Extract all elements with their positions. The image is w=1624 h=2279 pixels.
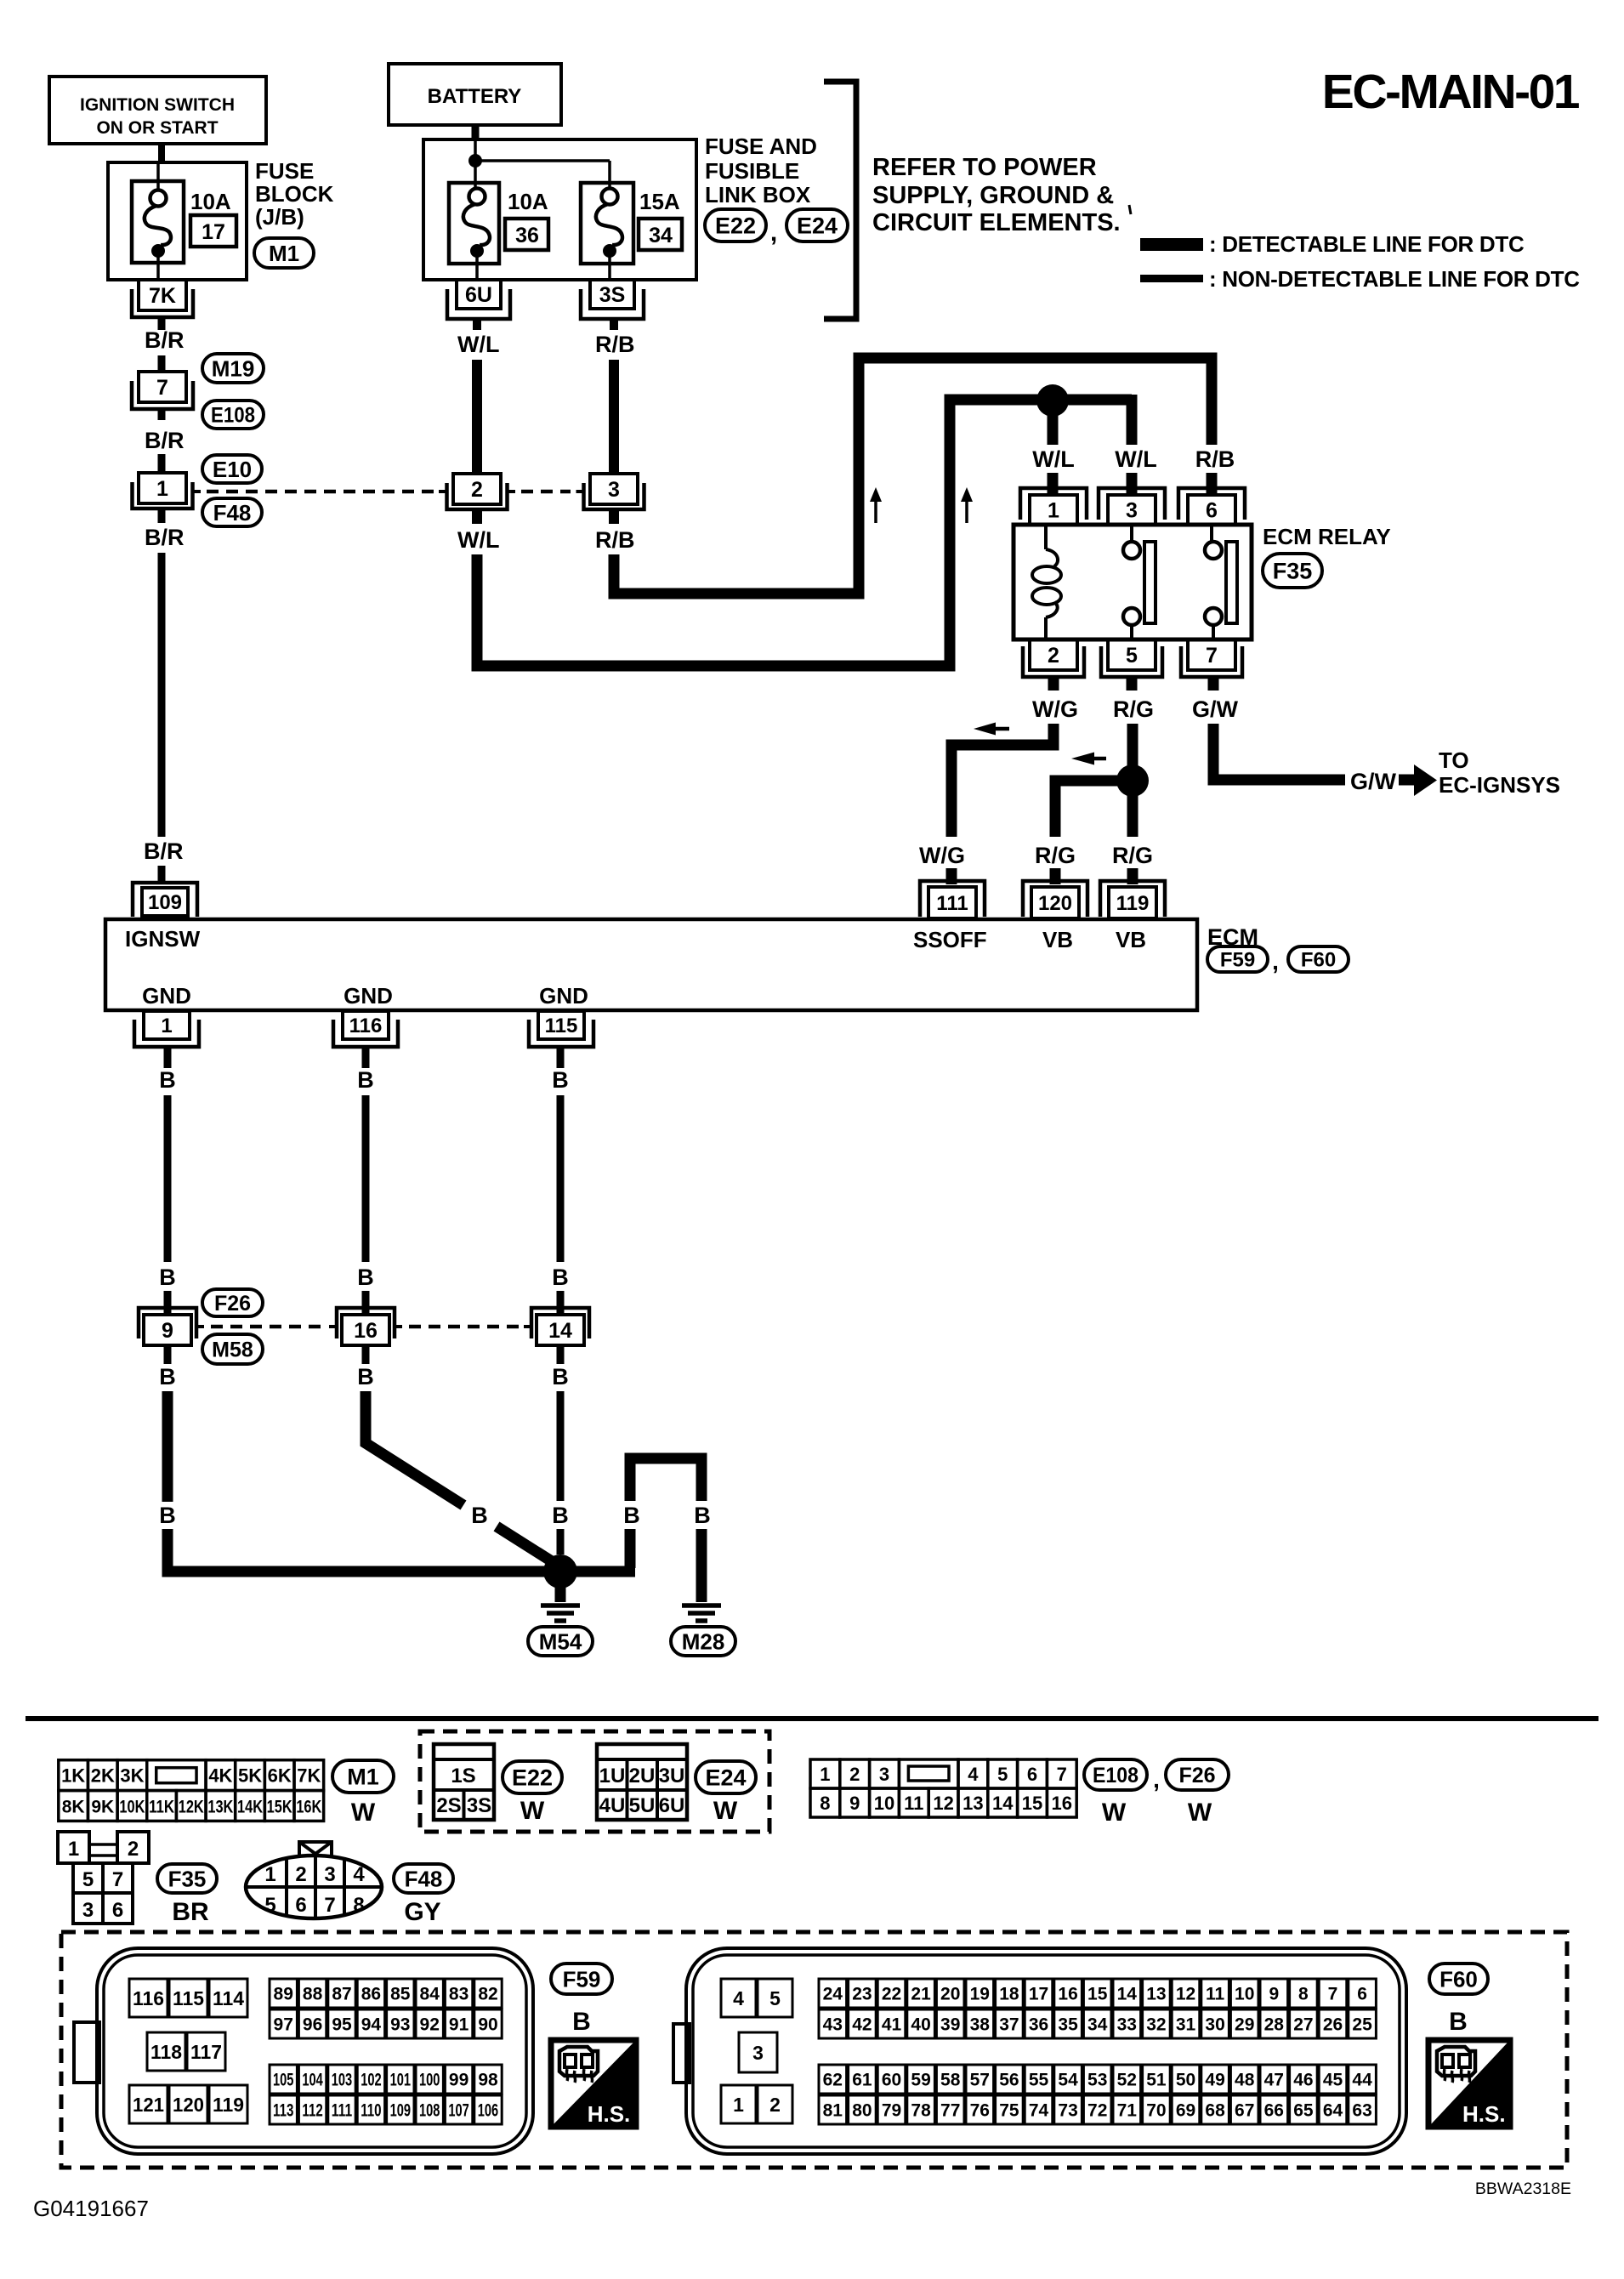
svg-text:8: 8: [1298, 1985, 1309, 2004]
svg-text:F60: F60: [1439, 1966, 1478, 1992]
svg-text:30: 30: [1205, 2015, 1224, 2035]
wire R/G from relay pin 5: [1127, 724, 1139, 837]
svg-text:96: 96: [303, 2015, 322, 2035]
relay pin 3 connector: [1099, 488, 1165, 525]
svg-text:B: B: [552, 1265, 569, 1290]
color W for F26: [1188, 1799, 1212, 1827]
wire G/W to EC-IGNSYS: [1213, 724, 1345, 780]
label G/W: [1350, 769, 1397, 794]
connector 3: [576, 474, 644, 509]
svg-text:7: 7: [112, 1868, 123, 1891]
svg-text:106: 106: [478, 2101, 498, 2121]
svg-text:B/R: B/R: [144, 838, 184, 864]
figure id BBWA2318E: [1475, 2180, 1571, 2198]
svg-text:6: 6: [1206, 499, 1218, 523]
dashed box around E22 E24: [420, 1731, 769, 1832]
connector E108 oval: [202, 401, 264, 429]
svg-text:8: 8: [353, 1894, 364, 1917]
svg-text:111: 111: [936, 892, 968, 915]
svg-text:B: B: [552, 1364, 569, 1390]
svg-text:10A: 10A: [190, 189, 231, 214]
F60 pin group 4-5: [721, 1979, 792, 2017]
wire B/R to connector 109: [158, 866, 166, 884]
connector 7 (M19/E108): [132, 372, 193, 409]
svg-text:16: 16: [1052, 1793, 1072, 1814]
relay pin 1 connector: [1020, 488, 1087, 525]
svg-text:W/L: W/L: [457, 332, 499, 357]
svg-text:8: 8: [820, 1793, 830, 1814]
svg-text:76: 76: [970, 2101, 990, 2121]
svg-text:4: 4: [733, 1987, 744, 2009]
svg-text:M1: M1: [347, 1765, 379, 1790]
svg-text:49: 49: [1205, 2071, 1224, 2090]
svg-text:M28: M28: [682, 1628, 725, 1654]
svg-text:7: 7: [156, 376, 168, 400]
wire B stub g2: [362, 1047, 370, 1068]
svg-text:114: 114: [213, 1987, 244, 2009]
svg-text:69: 69: [1176, 2101, 1195, 2121]
connector F26 oval: [202, 1289, 263, 1316]
wire B long g2: [362, 1095, 370, 1262]
comma: [1153, 1766, 1160, 1793]
svg-text:E108: E108: [211, 404, 255, 428]
label W/G: [1032, 696, 1078, 722]
svg-text:2: 2: [769, 2094, 781, 2116]
wire stubs below relay: [1053, 677, 1213, 691]
wire B stub below connector: [557, 1345, 565, 1364]
wire B stub above connector g3: [557, 1291, 565, 1315]
svg-text:63: 63: [1352, 2101, 1371, 2121]
svg-text:R/B: R/B: [595, 332, 635, 357]
F59 pin group 116-114: [129, 1979, 247, 2017]
wire R/B stub below connector 3: [609, 510, 619, 524]
svg-text:E22: E22: [512, 1765, 553, 1791]
svg-text:VB: VB: [1042, 927, 1073, 952]
ECM box: [105, 919, 1197, 1010]
connector view M1 grid: [59, 1760, 324, 1821]
svg-text:1K: 1K: [61, 1765, 85, 1787]
connector 120: [1023, 881, 1087, 918]
svg-text:58: 58: [940, 2071, 961, 2090]
svg-text:7: 7: [324, 1894, 335, 1917]
svg-text:80: 80: [852, 2101, 872, 2121]
connector F48 oval label: [394, 1864, 453, 1893]
wire W/L detectable run to relay pin 1: [477, 400, 1132, 666]
svg-text:B: B: [357, 1364, 374, 1390]
svg-text:G/W: G/W: [1350, 769, 1397, 794]
svg-text:B: B: [357, 1067, 374, 1093]
svg-text:87: 87: [332, 1985, 351, 2004]
color B for F60: [1449, 2008, 1468, 2036]
svg-text:F48: F48: [213, 500, 252, 526]
svg-text:51: 51: [1146, 2071, 1167, 2090]
ignition switch box: [49, 77, 266, 144]
svg-text:W: W: [1188, 1799, 1212, 1827]
svg-text:M54: M54: [539, 1628, 582, 1654]
svg-text:8K: 8K: [62, 1797, 85, 1816]
label B: [552, 1265, 569, 1290]
svg-text:43: 43: [823, 2015, 843, 2035]
svg-text:120: 120: [173, 2094, 204, 2116]
svg-text:B: B: [159, 1067, 176, 1093]
svg-text:1: 1: [68, 1838, 79, 1861]
legend non-detectable line: [1140, 266, 1580, 292]
svg-text:1: 1: [733, 2094, 744, 2116]
svg-text:81: 81: [823, 2101, 843, 2121]
connector 109: [133, 883, 197, 917]
F59 pin group 105-98 / 113-106: [270, 2065, 502, 2124]
svg-text:R/B: R/B: [1195, 446, 1235, 472]
svg-text:94: 94: [361, 2015, 382, 2035]
svg-text:45: 45: [1323, 2071, 1343, 2090]
wire B left column to ground bus: [168, 1391, 635, 1571]
title EC-MAIN-01: [1322, 65, 1580, 119]
svg-text:R/G: R/G: [1035, 843, 1076, 868]
connector F35 oval: [1263, 554, 1322, 588]
comma: [1272, 948, 1279, 975]
svg-text:2S: 2S: [436, 1794, 461, 1817]
connector 119: [1100, 881, 1165, 918]
svg-text:W/L: W/L: [1115, 446, 1156, 472]
svg-text:FUSIBLE: FUSIBLE: [705, 158, 799, 184]
svg-text:75: 75: [999, 2101, 1019, 2121]
svg-text:TO: TO: [1439, 747, 1469, 773]
svg-text:11: 11: [1206, 1985, 1225, 2004]
wire R/B stub: [610, 319, 618, 330]
relay pin 6 connector: [1178, 488, 1245, 525]
label B on M28 branch left: [623, 1503, 640, 1528]
svg-text:B: B: [159, 1364, 176, 1390]
svg-text:W/L: W/L: [1032, 446, 1074, 472]
label B below connector: [159, 1364, 176, 1390]
svg-text:99: 99: [449, 2071, 468, 2090]
svg-text:B: B: [694, 1503, 711, 1528]
connector F60 oval label: [1429, 1964, 1488, 1994]
svg-text:12: 12: [933, 1793, 953, 1814]
svg-text:5K: 5K: [238, 1765, 262, 1787]
svg-text:6: 6: [295, 1894, 306, 1917]
svg-text:102: 102: [361, 2071, 381, 2090]
svg-text:R/G: R/G: [1112, 843, 1153, 868]
connector M19 oval: [202, 354, 264, 383]
relay contact pins 3-5: [1123, 525, 1156, 639]
svg-text:B: B: [159, 1503, 176, 1528]
svg-text:17: 17: [202, 220, 225, 244]
svg-text:33: 33: [1117, 2015, 1137, 2035]
wire ignition switch to fuse block: [158, 144, 165, 164]
svg-text:M58: M58: [212, 1338, 253, 1362]
connector 111: [920, 881, 985, 918]
ground M28 oval: [671, 1627, 735, 1656]
svg-text:1: 1: [264, 1863, 275, 1886]
relay pin 7 connector: [1181, 639, 1242, 677]
svg-text:: DETECTABLE LINE FOR DTC: : DETECTABLE LINE FOR DTC: [1209, 231, 1525, 257]
svg-text:66: 66: [1264, 2101, 1284, 2121]
wire bus junction to M28 branch: [630, 1458, 701, 1568]
dashed box around F59 F60: [61, 1932, 1567, 2168]
label W/G above connector 111: [919, 843, 965, 868]
label W/L: [457, 527, 499, 553]
legend detectable line: [1140, 231, 1525, 257]
svg-text:70: 70: [1146, 2101, 1166, 2121]
svg-text:13: 13: [1146, 1985, 1166, 2004]
wire down to ground M54: [555, 1583, 566, 1602]
wire W/L junction to relay pin 1: [1048, 408, 1059, 445]
svg-text:E24: E24: [797, 213, 838, 239]
svg-text:F26: F26: [1178, 1764, 1215, 1787]
F60 pin 3: [739, 2032, 777, 2072]
svg-text:3U: 3U: [659, 1765, 685, 1787]
pin name VB: [1042, 927, 1073, 952]
svg-text:W: W: [713, 1797, 738, 1825]
svg-text:H.S.: H.S.: [588, 2101, 631, 2127]
svg-text:34: 34: [649, 224, 673, 247]
svg-text:34: 34: [1087, 2015, 1108, 2035]
svg-text:17: 17: [1029, 1985, 1048, 2004]
pin name VB: [1116, 927, 1146, 952]
svg-text:7K: 7K: [149, 284, 176, 308]
wire W/G to connector 111: [951, 724, 1053, 837]
connector view F48: [246, 1842, 382, 1918]
svg-text:FUSE AND: FUSE AND: [705, 134, 817, 159]
svg-text:54: 54: [1058, 2071, 1078, 2090]
svg-text:62: 62: [823, 2071, 843, 2090]
label B: [357, 1265, 374, 1290]
svg-text:EC-IGNSYS: EC-IGNSYS: [1439, 772, 1560, 798]
svg-text:(J/B): (J/B): [255, 204, 304, 230]
svg-text:84: 84: [420, 1985, 440, 2004]
svg-text:7: 7: [1057, 1764, 1067, 1785]
svg-text:36: 36: [515, 224, 539, 247]
svg-text:G04191667: G04191667: [33, 2196, 149, 2221]
svg-text:R/B: R/B: [595, 527, 635, 553]
connector F59 oval label: [551, 1964, 612, 1994]
ECM relay box F35: [1014, 525, 1252, 639]
connector E10 oval: [202, 455, 262, 483]
svg-text:61: 61: [852, 2071, 872, 2090]
svg-text:14: 14: [1117, 1985, 1138, 2004]
svg-text:89: 89: [274, 1985, 293, 2004]
svg-text:6: 6: [1027, 1764, 1037, 1785]
svg-text:2K: 2K: [91, 1765, 115, 1787]
svg-text:F35: F35: [1273, 559, 1313, 584]
svg-text:74: 74: [1029, 2101, 1049, 2121]
svg-text:6: 6: [1357, 1985, 1367, 2004]
relay coil: [1032, 525, 1061, 639]
fuse and fusible link box: [423, 139, 696, 280]
label R/B at relay pin 6: [1195, 446, 1235, 472]
svg-text:3: 3: [324, 1863, 335, 1886]
bracket refer note: [824, 82, 856, 319]
svg-text:53: 53: [1087, 2071, 1107, 2090]
svg-text:28: 28: [1264, 2015, 1285, 2035]
svg-text:GY: GY: [404, 1898, 440, 1926]
svg-text:W/G: W/G: [1032, 696, 1078, 722]
label B: [159, 1265, 176, 1290]
svg-text:2: 2: [128, 1838, 139, 1861]
label ECM RELAY: [1263, 524, 1391, 549]
label ECM: [1207, 924, 1258, 950]
pin name GND 116: [344, 983, 393, 1009]
svg-text:23: 23: [852, 1985, 872, 2004]
svg-text:90: 90: [478, 2015, 497, 2035]
wire B stub below connector: [362, 1345, 370, 1364]
svg-text:1: 1: [820, 1764, 830, 1785]
wire W/L corner down to relay pin 3: [1127, 395, 1138, 445]
svg-text:20: 20: [940, 1985, 960, 2004]
svg-text:22: 22: [882, 1985, 901, 2004]
svg-text:35: 35: [1058, 2015, 1078, 2035]
svg-text:10: 10: [1235, 1985, 1254, 2004]
connector F60 oval: [1288, 946, 1349, 972]
svg-text:,: ,: [770, 219, 777, 247]
wire down to ground M28: [696, 1529, 707, 1602]
F59 pin group 89-82 / 97-90: [270, 1979, 502, 2038]
connector 1 (E10/F48): [133, 473, 202, 509]
svg-text:10A: 10A: [508, 189, 548, 214]
connector F35 oval label: [157, 1864, 217, 1893]
wire B middle column to junction diagonal: [366, 1391, 554, 1563]
svg-text:83: 83: [449, 1985, 468, 2004]
svg-text:39: 39: [940, 2015, 960, 2035]
svg-text:B: B: [552, 1503, 569, 1528]
connector 9 (F26/M58): [139, 1308, 204, 1345]
junction node battery feed: [468, 154, 482, 168]
color B for F59: [572, 2008, 591, 2036]
svg-text:3K: 3K: [120, 1765, 144, 1787]
svg-text:31: 31: [1176, 2015, 1196, 2035]
svg-text:3: 3: [1126, 499, 1138, 523]
svg-text:68: 68: [1205, 2101, 1225, 2121]
svg-text:12: 12: [1176, 1985, 1195, 2004]
label G/W: [1192, 696, 1239, 722]
svg-text:B/R: B/R: [145, 428, 185, 453]
dashed link 16 to 14: [409, 1325, 521, 1329]
svg-text:6: 6: [112, 1899, 123, 1922]
svg-text:100: 100: [419, 2071, 440, 2090]
wire to fuse 34: [475, 161, 610, 190]
svg-text:104: 104: [302, 2071, 323, 2090]
svg-text:5: 5: [82, 1868, 94, 1891]
svg-text:50: 50: [1176, 2071, 1195, 2090]
svg-text:2: 2: [849, 1764, 860, 1785]
svg-text:11: 11: [904, 1793, 923, 1814]
svg-text:9K: 9K: [91, 1797, 114, 1816]
svg-text:37: 37: [999, 2015, 1019, 2035]
svg-text:64: 64: [1323, 2101, 1343, 2121]
svg-text:ON OR START: ON OR START: [96, 118, 218, 138]
wire B long g1: [164, 1095, 172, 1262]
svg-text:97: 97: [274, 2015, 293, 2035]
svg-text:4K: 4K: [208, 1765, 232, 1787]
svg-text:M19: M19: [212, 355, 255, 381]
connector view F35: [58, 1832, 149, 1924]
pin name SSOFF: [913, 927, 987, 952]
svg-text:13: 13: [962, 1793, 983, 1814]
svg-text:7K: 7K: [297, 1765, 321, 1787]
relay pin 5 connector: [1101, 639, 1162, 677]
svg-text:71: 71: [1117, 2101, 1138, 2121]
connector E108 oval label: [1084, 1759, 1147, 1790]
label B below connector: [357, 1364, 374, 1390]
label B/R: [145, 428, 185, 453]
dashed link 9 to 16: [211, 1325, 327, 1329]
svg-text:3: 3: [752, 2042, 764, 2064]
color W for E22: [520, 1797, 545, 1825]
svg-text:91: 91: [449, 2015, 469, 2035]
label R/G above connector 120: [1035, 843, 1076, 868]
svg-text:B: B: [552, 1067, 569, 1093]
svg-text:15: 15: [1087, 1985, 1108, 2004]
wire W/L down to connector 2: [472, 360, 482, 474]
svg-text:3: 3: [879, 1764, 889, 1785]
svg-text:26: 26: [1323, 2015, 1343, 2035]
svg-text:109: 109: [390, 2101, 411, 2121]
svg-text:4: 4: [353, 1863, 365, 1886]
wire B right column to junction: [557, 1391, 565, 1554]
svg-text:5: 5: [264, 1894, 275, 1917]
svg-text:G/W: G/W: [1192, 696, 1239, 722]
svg-text:112: 112: [302, 2101, 322, 2121]
ground symbol M28: [682, 1606, 721, 1621]
junction node W/L: [1036, 384, 1069, 417]
svg-text:4U: 4U: [599, 1794, 626, 1817]
svg-text:9: 9: [849, 1793, 860, 1814]
junction node R/G: [1116, 764, 1149, 797]
wire B stub above connector g2: [362, 1291, 370, 1315]
svg-text:15: 15: [1022, 1793, 1042, 1814]
svg-text:10: 10: [874, 1793, 894, 1814]
label R/G: [1113, 696, 1154, 722]
svg-text:1U: 1U: [599, 1765, 626, 1787]
color W for M1: [351, 1799, 376, 1827]
svg-text:56: 56: [999, 2071, 1019, 2090]
svg-text:15K: 15K: [267, 1797, 292, 1816]
connector F26 oval label: [1166, 1759, 1229, 1790]
fuse 34 15A: [581, 183, 682, 281]
connector F59 oval: [1207, 946, 1268, 972]
svg-text:6U: 6U: [465, 283, 492, 307]
svg-text:VB: VB: [1116, 927, 1146, 952]
svg-text:41: 41: [882, 2015, 902, 2035]
wire R/G branch to connector 120: [1055, 781, 1125, 837]
svg-text:ECM RELAY: ECM RELAY: [1263, 524, 1391, 549]
svg-text:2: 2: [295, 1863, 306, 1886]
F60 pin group 24-6 / 43-25: [819, 1979, 1376, 2038]
connector 14 (F26/M58): [524, 1308, 589, 1345]
svg-text:108: 108: [419, 2101, 440, 2121]
label B/R: [144, 838, 184, 864]
wire B stub g3: [557, 1047, 565, 1068]
svg-text:120: 120: [1038, 892, 1072, 915]
svg-text:BR: BR: [172, 1898, 209, 1926]
connector 2: [439, 474, 515, 509]
svg-text:FUSE: FUSE: [255, 158, 314, 184]
svg-text:95: 95: [332, 2015, 352, 2035]
wire B/R segment 2: [158, 355, 166, 372]
svg-text:BBWA2318E: BBWA2318E: [1475, 2180, 1571, 2198]
connector view F60 housing: [673, 1948, 1406, 2154]
pin name GND 1: [142, 983, 191, 1009]
svg-text:119: 119: [213, 2094, 244, 2116]
label B/R: [145, 327, 185, 353]
relay pin 2 connector: [1023, 639, 1084, 677]
label B below connector: [552, 1364, 569, 1390]
label B/R: [145, 525, 185, 550]
svg-text:M1: M1: [269, 241, 299, 266]
svg-text:47: 47: [1264, 2071, 1284, 2090]
svg-text:36: 36: [1029, 2015, 1048, 2035]
